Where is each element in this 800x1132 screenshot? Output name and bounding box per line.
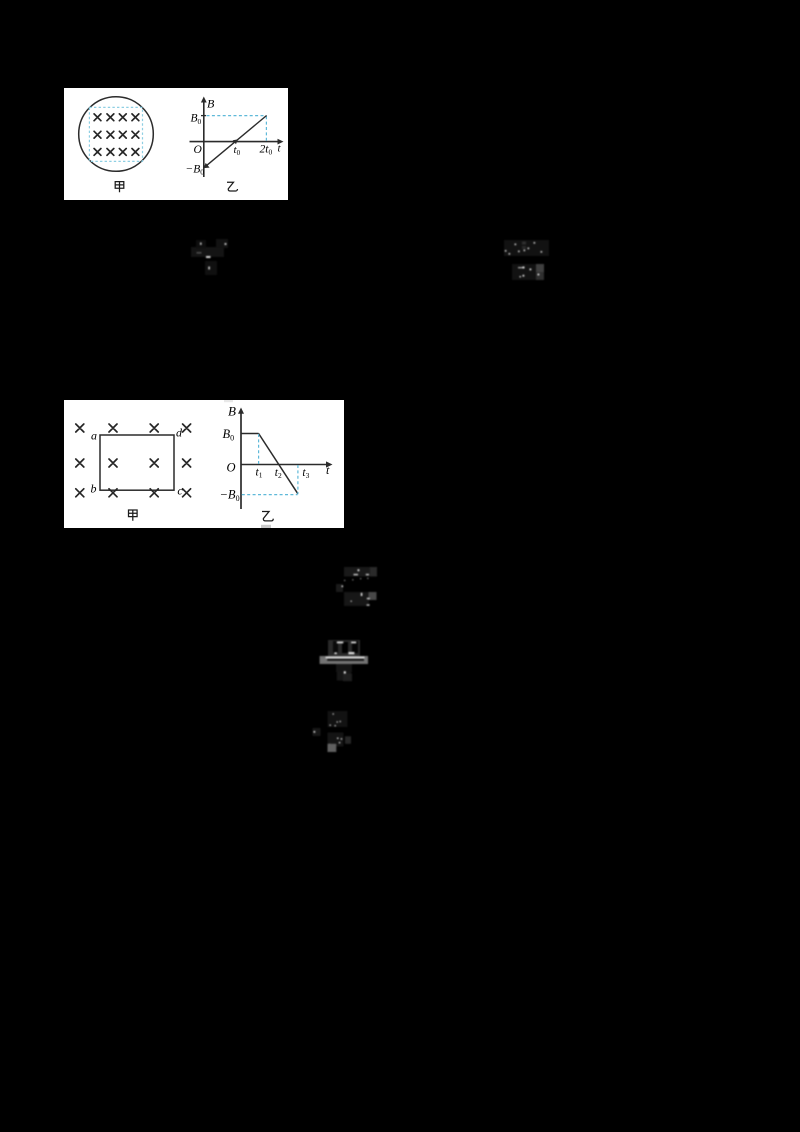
- -B0 dashed level: [242, 494, 298, 496]
- svg-text:B0: B0: [191, 113, 202, 126]
- B0 flat segment: [241, 433, 259, 435]
- jia character: [129, 510, 138, 521]
- line end arrowhead: [204, 163, 210, 168]
- faint formula cluster 5 (visible fraction): [312, 634, 376, 690]
- figure 2 panel (white box): [64, 400, 344, 528]
- svg-text:a: a: [91, 429, 97, 443]
- B0 dashed level: [207, 115, 267, 117]
- svg-text:d: d: [176, 426, 183, 440]
- B axis: [240, 411, 242, 509]
- fraction bar band: [320, 656, 368, 664]
- yi character: [227, 182, 238, 191]
- descending segment: [259, 434, 298, 494]
- svg-text:−B0: −B0: [220, 488, 240, 503]
- faint formula cluster 4: [330, 560, 385, 615]
- t axis: [190, 141, 281, 143]
- svg-text:2t0: 2t0: [260, 144, 273, 157]
- yi character: [262, 512, 273, 521]
- 2t0 dashed vertical: [265, 116, 267, 141]
- svg-text:t0: t0: [234, 144, 241, 157]
- field region circle: [79, 97, 154, 172]
- B axis: [203, 100, 205, 177]
- wire loop abcd: [100, 435, 174, 490]
- svg-text:B: B: [228, 404, 236, 419]
- svg-text:c: c: [177, 484, 183, 498]
- svg-text:B: B: [207, 97, 215, 111]
- B0 axis tick: [201, 115, 206, 117]
- B(t) line: [205, 116, 267, 168]
- flux crosses grid: [94, 114, 139, 155]
- svg-text:O: O: [227, 461, 236, 475]
- svg-text:t: t: [278, 143, 282, 155]
- svg-text:B0: B0: [223, 427, 235, 442]
- direction arrowhead on line: [233, 139, 238, 144]
- faint mark below yi: [261, 525, 271, 528]
- svg-text:−B0: −B0: [186, 164, 205, 177]
- t axis: [241, 464, 329, 466]
- t3 dashed vertical: [297, 465, 299, 494]
- faint formula cluster 3: [512, 264, 536, 280]
- figure 1 panel (white box): [64, 88, 288, 200]
- faint formula cluster 1: [185, 234, 240, 284]
- dashed loop boundary: [89, 107, 142, 161]
- faint formula cluster 6: [290, 695, 355, 757]
- svg-text:t1: t1: [256, 467, 263, 480]
- t1 dashed vertical: [258, 434, 260, 464]
- svg-text:t3: t3: [302, 467, 309, 480]
- denominator: [336, 664, 352, 672]
- faint formula cluster 2: [498, 236, 558, 286]
- jia character: [115, 182, 124, 193]
- faint smudge above B: [224, 400, 233, 402]
- svg-text:O: O: [194, 144, 203, 156]
- svg-text:b: b: [91, 482, 97, 496]
- flux crosses grid: [76, 424, 191, 497]
